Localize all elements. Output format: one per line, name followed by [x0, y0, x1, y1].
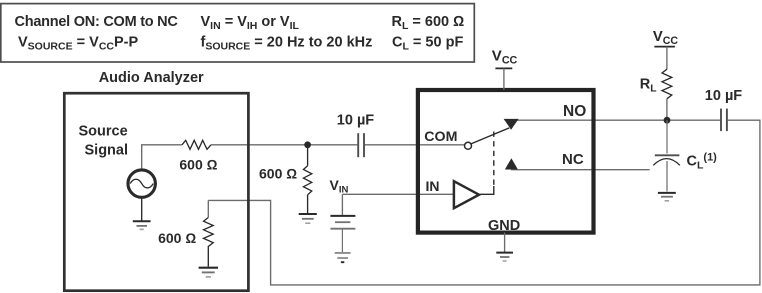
- svg-text:VIN: VIN: [330, 177, 349, 196]
- svg-text:600 Ω: 600 Ω: [179, 157, 217, 173]
- NO contact triangle: [504, 119, 519, 130]
- svg-text:IN: IN: [426, 178, 440, 194]
- capacitor 10uF (input coupling): [358, 133, 364, 157]
- wire: return loop from right cap around bottom to analyzer resistor: [208, 120, 760, 285]
- wire: source top riser to resistor: [142, 145, 182, 170]
- dashed control line: [493, 132, 495, 187]
- svg-text:RL: RL: [640, 77, 657, 95]
- ground under CL: [658, 193, 676, 201]
- svg-text:NO: NO: [563, 103, 586, 120]
- junction node (input rail / shunt resistor): [304, 141, 311, 148]
- switch pole circle (COM): [465, 142, 472, 149]
- wire: COM pin inside IC to switch circle: [419, 144, 465, 146]
- wire: cap to IC COM pin: [365, 144, 417, 146]
- VIN source battery: [330, 194, 355, 252]
- svg-text:600 Ω: 600 Ω: [158, 230, 196, 246]
- svg-text:Channel ON: COM to NC: Channel ON: COM to NC: [15, 14, 179, 30]
- svg-text:GND: GND: [488, 218, 520, 234]
- svg-text:VCC: VCC: [653, 29, 679, 47]
- resistor 600 ohm horizontal (series): [182, 140, 211, 149]
- analyzer box: [64, 93, 248, 291]
- NC contact triangle: [505, 158, 518, 169]
- wire: main rail from resistor to coupling cap: [211, 144, 357, 146]
- VCC bar (RL): [654, 46, 675, 48]
- svg-text:Signal: Signal: [85, 142, 129, 158]
- svg-text:Source: Source: [79, 123, 128, 139]
- capacitor 10uF (output): [721, 109, 727, 132]
- wire: NC stub: [511, 169, 650, 171]
- buffer driver triangle: [454, 181, 479, 208]
- wire: IN wire from VIN to buffer: [342, 193, 453, 195]
- capacitor CL: [653, 120, 680, 191]
- switch arm: [471, 128, 509, 144]
- shunt resistor 600 ohm (mid): [307, 145, 309, 166]
- IC box: [418, 90, 594, 233]
- ground under VIN battery: [335, 253, 351, 262]
- wire: NO output rail to RL junction and 10uF cap: [511, 119, 720, 121]
- ground under source: [133, 221, 151, 229]
- conditions box: [1, 4, 475, 62]
- ground under IC: [496, 253, 513, 261]
- junction node (NO rail / RL / CL): [664, 117, 671, 124]
- wire: source bottom to ground: [141, 197, 143, 220]
- GND pin wire: [504, 233, 506, 252]
- svg-text:VCC: VCC: [492, 48, 518, 67]
- analyzer shunt resistor 600 ohm: [207, 200, 209, 217]
- svg-text:Audio Analyzer: Audio Analyzer: [99, 70, 204, 86]
- svg-text:10 µF: 10 µF: [705, 88, 743, 104]
- svg-text:600 Ω: 600 Ω: [259, 166, 297, 182]
- ground under analyzer shunt resistor: [199, 268, 218, 277]
- sine wave inside source: [130, 179, 153, 188]
- ground under mid shunt resistor: [299, 214, 317, 223]
- resistor RL: [666, 47, 668, 70]
- source AC circle: [128, 170, 155, 197]
- svg-text:10 µF: 10 µF: [337, 113, 375, 129]
- svg-text:CL(1): CL(1): [687, 152, 718, 172]
- svg-text:NC: NC: [562, 151, 584, 168]
- svg-text:COM: COM: [424, 129, 457, 145]
